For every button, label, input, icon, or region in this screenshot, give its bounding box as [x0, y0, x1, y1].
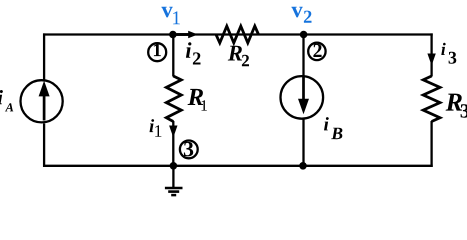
label v2 — [291, 7, 311, 23]
resistor R3 — [423, 76, 440, 122]
label iA — [0, 90, 13, 111]
circled node 2 — [308, 43, 325, 60]
node v2 dot — [300, 31, 308, 39]
label iB — [324, 117, 342, 139]
current source iA — [20, 80, 62, 122]
node v1 dot — [169, 31, 177, 39]
wire top — [43, 33, 433, 35]
label v1 — [161, 7, 180, 24]
wire left lower — [43, 123, 45, 167]
node 3 dot — [170, 162, 178, 170]
arrow i2 — [177, 31, 198, 39]
circled node 1 — [148, 43, 166, 61]
wire node2 branch lower — [302, 120, 304, 166]
wire right lower — [430, 121, 432, 167]
wire node1 branch lower — [172, 121, 174, 166]
wire bottom — [43, 165, 433, 167]
wire right upper — [430, 33, 432, 76]
label R2 — [228, 46, 249, 66]
label i2 — [186, 42, 201, 64]
arrow i1 — [169, 126, 177, 138]
ground — [165, 166, 183, 195]
label R1 — [188, 89, 207, 111]
label i1 — [150, 119, 162, 137]
current source iB — [281, 76, 324, 119]
label i3 — [441, 43, 456, 64]
resistor R1 — [166, 76, 181, 122]
wire node2 branch upper — [302, 35, 304, 76]
wire node1 branch upper — [172, 35, 174, 77]
node iB bottom dot — [299, 162, 307, 170]
wire left upper — [43, 33, 45, 79]
circled node 3 — [180, 141, 198, 159]
arrow i3 — [427, 54, 435, 66]
resistor R2 — [216, 26, 259, 43]
label R3 — [446, 94, 467, 118]
